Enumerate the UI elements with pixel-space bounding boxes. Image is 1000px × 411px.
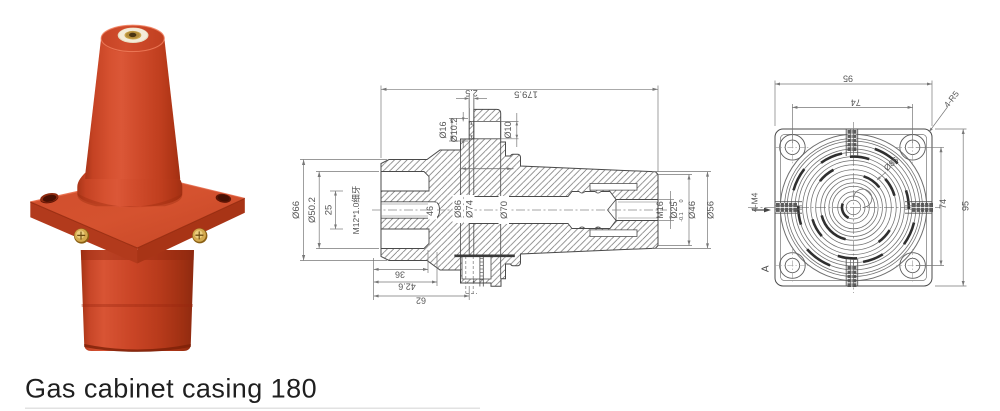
svg-text:36: 36 [395,270,405,280]
svg-text:Ø66: Ø66 [291,201,302,219]
svg-text:Ø86: Ø86 [453,200,464,218]
svg-text:4-M4: 4-M4 [750,192,760,212]
svg-text:74: 74 [938,199,948,209]
svg-text:Ø50.2: Ø50.2 [307,197,318,223]
svg-text:95: 95 [843,74,853,84]
svg-text:Ø16: Ø16 [438,121,448,138]
svg-text:4-R5: 4-R5 [942,89,961,110]
svg-text:Ø70: Ø70 [499,201,510,219]
svg-text:M12*1.0细牙: M12*1.0细牙 [351,186,361,235]
svg-text:Ø46: Ø46 [687,201,698,219]
svg-text:74: 74 [851,98,861,108]
svg-text:Ø10.2: Ø10.2 [449,118,459,143]
svg-text:0: 0 [679,199,685,202]
svg-text:Ø56: Ø56 [706,201,717,219]
svg-text:62: 62 [416,296,426,306]
svg-text:Ø25: Ø25 [669,201,679,218]
svg-text:Ø86: Ø86 [882,155,901,173]
svg-text:25: 25 [324,205,335,216]
svg-text:2.5: 2.5 [465,88,478,98]
svg-text:42.6: 42.6 [398,282,416,292]
svg-text:46: 46 [425,206,435,216]
svg-text:A: A [760,265,771,272]
svg-text:Ø74: Ø74 [464,200,475,218]
svg-text:Gas cabinet casing 180: Gas cabinet casing 180 [25,374,317,404]
svg-text:95: 95 [961,201,971,211]
svg-text:179.5: 179.5 [514,89,538,100]
svg-text:-0.1: -0.1 [679,212,685,221]
svg-text:M16: M16 [655,201,665,219]
svg-text:Ø10: Ø10 [503,121,513,138]
